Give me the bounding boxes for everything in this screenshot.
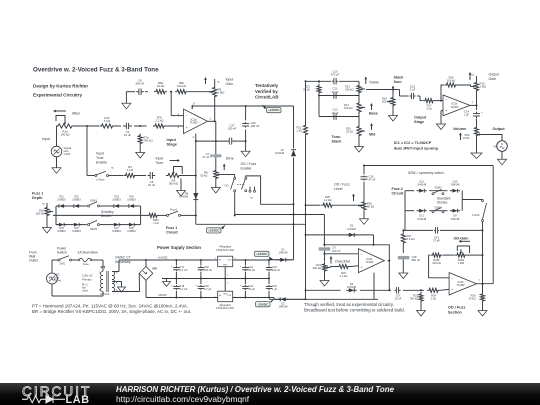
svg-text:Circuit: Circuit	[166, 230, 178, 234]
switch SSW4	[432, 206, 444, 212]
label FD3	[112, 196, 121, 202]
svg-text:187A24: 187A24	[100, 292, 110, 296]
svg-text:3: 3	[178, 125, 180, 129]
label C6	[136, 79, 145, 86]
svg-text:OD: OD	[225, 184, 229, 188]
switch InTone	[95, 167, 115, 182]
svg-text:+: +	[445, 109, 447, 113]
wire R5 to drive node	[181, 175, 196, 177]
switch Fuzz1	[159, 208, 181, 217]
wire to r23 node	[403, 289, 424, 291]
feedback loop IC2a	[325, 245, 391, 262]
regulator U- label	[216, 303, 234, 310]
label OD	[225, 184, 229, 188]
wire C13 to R17	[417, 96, 423, 101]
svg-text:24VAC CT: 24VAC CT	[115, 256, 131, 260]
svg-text:Treble: Treble	[369, 81, 379, 85]
svg-text:Mid: Mid	[369, 133, 376, 137]
label Drive	[226, 157, 234, 161]
wire sec bottom	[112, 291, 140, 293]
svg-text:500 kΩ: 500 kΩ	[169, 182, 178, 186]
wire reg- out	[233, 297, 269, 299]
svg-text:1 kΩ: 1 kΩ	[426, 107, 432, 111]
svg-text:1N4148: 1N4148	[275, 151, 285, 155]
wire R6b to R9	[188, 91, 215, 93]
ground under R16	[389, 108, 398, 122]
label R4	[127, 165, 133, 172]
svg-text:Design by Kurtus Richter: Design by Kurtus Richter	[33, 84, 88, 89]
wire r13 to r16	[366, 89, 394, 96]
wire fuzz1 to drop	[181, 214, 197, 216]
label C22n	[395, 294, 402, 301]
svg-text:Diodes: Diodes	[101, 214, 112, 218]
ground under R2a	[360, 212, 369, 225]
vertical drop x325	[323, 215, 325, 246]
label Input Gain	[226, 78, 234, 87]
svg-text:CircuitLAB: CircuitLAB	[255, 95, 279, 100]
potentiometer R20	[474, 126, 482, 138]
diode D12	[417, 209, 427, 213]
svg-text:250 kΩ: 250 kΩ	[345, 88, 353, 92]
label RW1	[153, 218, 159, 225]
label Mid	[369, 133, 376, 137]
fuzz2 net frame	[405, 191, 483, 231]
wire d4 to c22	[360, 289, 391, 291]
wire switch to R4	[109, 175, 124, 177]
resistor R24	[427, 288, 440, 292]
potentiometer R13 treble	[357, 81, 365, 95]
switch OD pole1	[231, 177, 236, 191]
svg-text:5: 5	[116, 282, 118, 285]
label C16	[369, 175, 376, 182]
label R11	[297, 126, 303, 133]
svg-text:nc: nc	[111, 167, 114, 170]
note IC1 IC2	[394, 140, 439, 150]
potentiometer R16	[387, 96, 395, 108]
label Input Tone Enable	[96, 152, 107, 165]
potentiometer R19	[471, 81, 479, 93]
label C14	[464, 110, 470, 117]
dashed gang link	[237, 184, 245, 186]
svg-text:560 nF: 560 nF	[136, 82, 145, 86]
svg-text:60 Hz: 60 Hz	[55, 279, 62, 283]
label D2	[279, 302, 289, 309]
label signal sine	[64, 146, 72, 156]
svg-text:Fuzz1: Fuzz1	[170, 208, 178, 212]
label OD/Fuzz Enable	[241, 162, 257, 171]
R19 stub	[471, 74, 476, 81]
svg-text:BR: BR	[153, 267, 158, 271]
svg-text:Fuzz 2: Fuzz 2	[392, 187, 403, 191]
svg-text:Secondary: Secondary	[115, 260, 131, 264]
label C7	[202, 152, 210, 159]
svg-text:Sum: Sum	[394, 80, 403, 84]
capacitor C8	[148, 172, 156, 179]
svg-text:47 nF: 47 nF	[202, 155, 209, 159]
svg-text:10 kΩ: 10 kΩ	[157, 84, 165, 88]
wire BR connections	[139, 260, 146, 292]
regulator U+	[215, 256, 237, 267]
drive arrow	[223, 164, 226, 171]
label C19	[433, 236, 440, 243]
label R7b	[155, 116, 163, 123]
resistor R7a	[138, 134, 142, 146]
svg-text:−: −	[361, 253, 363, 257]
label OD/Fuzz Section	[448, 306, 466, 315]
svg-text:100 kΩ: 100 kΩ	[432, 261, 440, 265]
capacitor C28 film	[398, 245, 410, 266]
label R21	[313, 263, 322, 270]
label FD2	[72, 196, 81, 202]
svg-text:1N5819: 1N5819	[57, 230, 66, 233]
diode D10	[450, 189, 460, 193]
rail -16	[146, 292, 218, 298]
label Schottky Diodes	[101, 210, 114, 218]
svg-text:2.2 mF: 2.2 mF	[180, 268, 188, 272]
svg-text:TL082: TL082	[450, 105, 458, 109]
label Atten	[72, 112, 80, 116]
label 187A24	[100, 292, 110, 296]
label R8	[200, 171, 208, 178]
diode D11	[417, 189, 427, 193]
resistor R11	[303, 124, 307, 137]
svg-text:SSW1: SSW1	[90, 199, 98, 202]
svg-text:1N4148: 1N4148	[417, 183, 427, 187]
label C11	[332, 87, 339, 94]
label -16VDC	[158, 293, 167, 297]
svg-text:Output: Output	[414, 116, 427, 120]
svg-text:+12VDC: +12VDC	[208, 229, 220, 233]
label C19b	[204, 265, 212, 272]
ground under VM	[498, 151, 507, 165]
wire sec top	[112, 260, 146, 272]
svg-text:+: +	[451, 288, 453, 292]
label C28	[412, 255, 421, 262]
svg-text:1 kΩ: 1 kΩ	[127, 168, 133, 172]
wire c19 row	[403, 229, 482, 231]
label From Wall Outlet	[29, 251, 38, 263]
svg-text:1N5819: 1N5819	[57, 199, 66, 202]
svg-text:+: +	[481, 110, 483, 114]
label C24	[272, 284, 278, 291]
psu ground mid	[163, 279, 171, 287]
label OD/Fuzz Level	[334, 183, 350, 192]
label D8	[179, 192, 189, 199]
svg-text:1 µF: 1 µF	[464, 113, 470, 117]
label Output	[493, 127, 506, 131]
svg-text:no: no	[250, 197, 253, 200]
svg-text:100 kΩ: 100 kΩ	[313, 266, 321, 270]
resistor R26b	[431, 253, 443, 257]
diode D2	[278, 297, 288, 301]
resistor RW1	[147, 213, 159, 217]
wire output riser	[492, 166, 494, 284]
potentiometer R2b	[42, 203, 53, 218]
wire r26 to minus	[429, 255, 450, 278]
label R13	[345, 85, 353, 92]
note though-verified	[304, 302, 405, 313]
label R20	[463, 133, 470, 140]
ground under R8	[211, 181, 220, 194]
svg-text:2: 2	[227, 275, 229, 277]
label FD1	[57, 196, 66, 202]
svg-text:Level: Level	[334, 187, 343, 191]
regulator gnd link	[224, 267, 229, 292]
svg-text:50 kΩ: 50 kΩ	[200, 174, 207, 178]
svg-text:Input: Input	[96, 152, 104, 156]
label FD5	[57, 227, 66, 233]
svg-text:2.2 mF: 2.2 mF	[180, 287, 188, 291]
svg-text:+12VDC: +12VDC	[268, 108, 280, 112]
svg-text:+16VDC: +16VDC	[158, 255, 168, 259]
capacitor C11	[332, 92, 338, 99]
diode FD1	[56, 204, 66, 208]
wire C6 to R6a	[145, 91, 148, 93]
svg-text:1 MΩ: 1 MΩ	[480, 85, 487, 89]
wire lower bypass	[196, 140, 247, 142]
svg-text:OD / Fuzz: OD / Fuzz	[448, 306, 466, 310]
svg-text:1N5819: 1N5819	[112, 199, 121, 202]
svg-text:TL082: TL082	[457, 283, 465, 287]
label Input	[42, 137, 50, 141]
fuzz1 frame	[56, 206, 141, 225]
svg-text:2 µF: 2 µF	[410, 88, 416, 92]
svg-text:1 kHz: 1 kHz	[64, 152, 72, 156]
stack sum arrow	[392, 86, 395, 95]
cap C24	[266, 279, 272, 299]
svg-text:100 nF: 100 nF	[332, 249, 341, 253]
resistor R17	[423, 99, 435, 103]
rail +16	[145, 259, 218, 261]
resistor R28	[480, 284, 484, 303]
volume arrow	[459, 133, 462, 141]
wire fuzz2 top	[363, 165, 493, 167]
potentiometer R2a	[358, 200, 366, 212]
aux contacts	[249, 187, 256, 193]
svg-text:1 MΩ: 1 MΩ	[458, 261, 464, 265]
svg-text:25 kΩ: 25 kΩ	[346, 130, 353, 134]
op-amp IC1b	[443, 95, 470, 116]
label D5 1N4148	[347, 225, 356, 232]
switch Fuzz2	[472, 200, 486, 222]
svg-text:+: +	[171, 265, 173, 268]
svg-text:Input: Input	[156, 157, 164, 161]
label C17	[171, 265, 188, 272]
op-amp IC2b	[449, 273, 476, 295]
wire IC1b out	[470, 101, 478, 107]
label R12	[303, 85, 310, 92]
svg-text:+: +	[240, 265, 242, 268]
svg-text:-12VDC: -12VDC	[257, 302, 269, 306]
label R28	[469, 294, 476, 301]
ground under R7a	[136, 146, 145, 159]
svg-text:750 kΩ: 750 kΩ	[144, 139, 153, 143]
diode FD2	[71, 204, 81, 208]
wire y234	[305, 234, 375, 246]
switch frame wire	[246, 176, 294, 204]
label Input Tone	[156, 157, 164, 166]
feedback R18	[441, 83, 471, 101]
potentiometer R8	[214, 169, 222, 181]
regulator U+ label	[216, 245, 234, 252]
wire R1b to C4	[115, 125, 122, 127]
resistor R7b	[153, 124, 166, 128]
svg-text:22 nF: 22 nF	[124, 133, 132, 137]
potentiometer R9	[209, 86, 217, 99]
label D11	[417, 180, 427, 187]
riser +12 right	[293, 106, 295, 260]
wire VAC up	[52, 260, 58, 273]
svg-text:+: +	[186, 126, 188, 130]
label Volume	[453, 127, 466, 131]
svg-text:nc: nc	[42, 203, 45, 206]
svg-text:1N4148: 1N4148	[347, 285, 357, 289]
svg-text:Overdrive: Overdrive	[335, 259, 350, 263]
label D10	[451, 180, 461, 187]
badge +12VDC psu	[255, 251, 274, 259]
label R14	[344, 103, 352, 110]
svg-text:1.2 kΩ: 1.2 kΩ	[323, 198, 331, 202]
potentiometer R26a	[455, 246, 470, 257]
svg-text:2.2 kΩ: 2.2 kΩ	[340, 274, 348, 278]
tone row1 wire	[305, 80, 360, 82]
capacitor C6	[136, 89, 144, 96]
svg-text:560 nF: 560 nF	[412, 258, 421, 262]
voltmeter VM	[493, 141, 507, 152]
+12 rail right	[269, 259, 294, 261]
label slow blow	[78, 251, 99, 255]
svg-text:Drive: Drive	[226, 157, 234, 161]
svg-text:nc: nc	[217, 81, 220, 84]
label no	[250, 197, 253, 200]
wire +12 to riser	[274, 259, 294, 261]
label C4	[124, 130, 132, 137]
wire fuzz2 sw down	[482, 222, 484, 293]
diode FD6	[71, 223, 81, 227]
op-amp IC2a	[358, 249, 384, 273]
input gain arrow	[204, 77, 207, 84]
pin8 stub	[192, 101, 195, 109]
cap C21	[242, 259, 249, 280]
svg-text:PT: PT	[101, 266, 107, 270]
-12 rail	[269, 298, 378, 300]
diode D1	[278, 258, 288, 262]
label R26a	[458, 258, 465, 265]
resistor R4	[124, 173, 137, 177]
svg-text:SSW2: SSW2	[90, 228, 98, 231]
label R15	[346, 127, 353, 134]
svg-text:Experimental Circuitry: Experimental Circuitry	[33, 93, 82, 98]
svg-text:1N4148: 1N4148	[417, 217, 427, 221]
label Tone-Stack	[332, 135, 343, 144]
level arrow	[352, 194, 355, 202]
label C9	[332, 246, 341, 253]
resistor R6a	[154, 90, 167, 94]
capacitor C14	[473, 110, 483, 118]
R9 top stub	[215, 79, 221, 86]
capacitor C9 film	[319, 247, 331, 254]
switch SSW2	[88, 220, 100, 230]
label Bass	[369, 112, 378, 116]
diode D5	[346, 233, 357, 237]
label Fuzz 1 Circuit	[166, 226, 178, 235]
wire gnd to C6	[126, 91, 135, 93]
wire R24 to plus	[440, 288, 449, 291]
svg-text:1N5819: 1N5819	[112, 230, 121, 233]
svg-text:nc: nc	[471, 74, 474, 77]
svg-text:Tone-: Tone-	[332, 135, 343, 139]
svg-text:SSW3: SSW3	[435, 187, 443, 190]
label R1a value	[60, 130, 69, 137]
wire feedback tap	[170, 91, 183, 116]
label R17	[426, 104, 432, 111]
tone row2 wire	[318, 95, 359, 97]
wire opamp out	[208, 117, 216, 123]
svg-text:Section: Section	[448, 310, 463, 314]
svg-text:LT81331V-DG: LT81331V-DG	[216, 306, 234, 310]
svg-text:−: −	[451, 276, 453, 280]
svg-text:SSW4: SSW4	[435, 206, 443, 209]
label C26	[251, 121, 260, 128]
label Power Switch	[57, 247, 67, 255]
cap C18	[173, 279, 180, 299]
sec pin labels	[116, 272, 118, 293]
potentiometer R14 bass	[357, 96, 365, 117]
capacitor C19	[434, 227, 439, 234]
diode FD8	[126, 223, 136, 227]
label R1b	[104, 116, 110, 123]
ground under R15	[355, 138, 364, 153]
svg-text:1N4148: 1N4148	[451, 183, 461, 187]
source VAC	[47, 273, 58, 284]
svg-text:22 nF: 22 nF	[395, 297, 402, 301]
diode FD3	[111, 204, 121, 208]
svg-text:1N4148: 1N4148	[179, 195, 189, 199]
signal source V1	[51, 126, 62, 157]
svg-text:2.2 µF: 2.2 µF	[204, 287, 212, 291]
wire od level row	[305, 204, 321, 206]
wire R4 to C8	[137, 175, 147, 177]
diode D8 on drop wire	[193, 193, 198, 200]
svg-text:Fuzz 1: Fuzz 1	[166, 226, 177, 230]
wire y215 manifold	[235, 214, 325, 216]
svg-text:100 kΩ: 100 kΩ	[344, 106, 352, 110]
svg-text:PT = Hammond 187A24, Pri. 115V: PT = Hammond 187A24, Pri. 115VAC @ 60 Hz…	[32, 304, 188, 309]
label R18	[447, 76, 455, 83]
svg-text:1N4148: 1N4148	[279, 305, 289, 309]
svg-text:Tone: Tone	[96, 156, 104, 160]
label R16	[382, 97, 390, 104]
label D9	[451, 214, 461, 221]
potentiometer R5	[166, 167, 182, 178]
svg-text:1 µF: 1 µF	[272, 287, 278, 291]
svg-text:100 kΩ: 100 kΩ	[447, 79, 455, 83]
label C27	[228, 124, 237, 131]
switch SSW1	[88, 199, 100, 207]
svg-text:1N4148: 1N4148	[451, 217, 461, 221]
svg-text:Gain: Gain	[489, 77, 496, 81]
svg-text:Stack: Stack	[394, 76, 405, 80]
ground under source	[52, 157, 61, 174]
diode FD7	[111, 223, 121, 227]
IC2a pin4 stub	[373, 273, 375, 300]
svg-text:InTone: InTone	[97, 177, 105, 181]
label VAC	[55, 273, 62, 283]
wire down to InTone switch	[87, 126, 95, 176]
node R6a-R6b	[170, 91, 172, 93]
wire r16 to C13	[393, 90, 409, 97]
svg-text:100 kΩ: 100 kΩ	[60, 133, 69, 137]
